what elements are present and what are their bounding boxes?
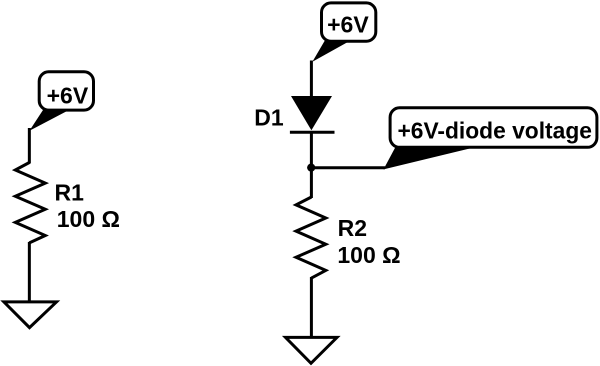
svg-text:+6V: +6V [47,83,89,109]
node junction [307,164,315,172]
net label +6V-diode voltage [384,108,597,170]
svg-text:R2: R2 [338,215,367,241]
wire [311,166,385,169]
svg-text:R1: R1 [55,179,85,205]
svg-text:+6V: +6V [327,11,369,37]
wire [28,128,31,164]
diode D1 [290,96,335,132]
svg-text:D1: D1 [254,105,284,131]
svg-text:100 Ω: 100 Ω [57,206,120,232]
power flag +6V (left) [29,72,93,131]
wire [310,61,313,99]
wire [28,242,31,301]
wire [310,132,313,198]
resistor R2 [296,197,326,278]
ground [4,302,57,328]
svg-text:100 Ω: 100 Ω [337,242,400,268]
svg-text:+6V-diode voltage: +6V-diode voltage [397,118,591,144]
power flag +6V (right) [312,3,375,62]
wire [310,277,313,337]
resistor R1 [15,163,45,243]
ground [286,337,338,363]
